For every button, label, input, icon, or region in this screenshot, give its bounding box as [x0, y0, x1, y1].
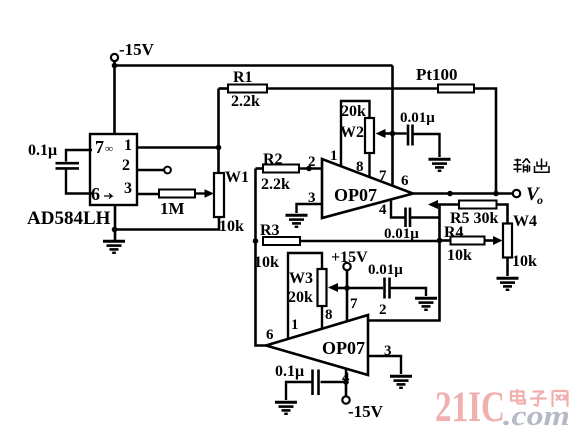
op-amp U2 OP07 top	[308, 148, 413, 218]
svg-text:W4: W4	[513, 213, 537, 230]
svg-text:W1: W1	[225, 169, 249, 186]
svg-text:10k: 10k	[447, 247, 472, 264]
svg-text:0.1μ: 0.1μ	[275, 363, 304, 380]
svg-text:R4: R4	[444, 224, 464, 241]
svg-text:7: 7	[379, 168, 387, 184]
svg-text:2: 2	[379, 302, 387, 318]
node junction R3	[253, 238, 259, 244]
svg-text:-15V: -15V	[119, 40, 155, 59]
svg-text:2: 2	[308, 154, 316, 170]
resistor R1 2.2k	[219, 69, 268, 110]
svg-text:7: 7	[95, 137, 104, 157]
wire -15V rail top	[115, 61, 393, 66]
wire pin4 bottom	[345, 369, 347, 383]
wire -15V rail down to pin7	[391, 66, 394, 186]
label output chinese	[514, 159, 550, 173]
svg-text:W2: W2	[340, 124, 364, 141]
svg-text:10k: 10k	[512, 253, 537, 270]
svg-text:1M: 1M	[160, 199, 185, 218]
wire pin1 to W2 loop	[341, 101, 370, 167]
wire W3 bottom to pin8	[321, 306, 323, 329]
svg-text:8: 8	[356, 159, 364, 175]
IC U1 AD584LH box	[90, 134, 137, 205]
svg-text:R3: R3	[260, 222, 280, 239]
svg-text:6: 6	[401, 173, 409, 189]
node junction pin4	[343, 379, 349, 385]
potentiometer W2 20k	[340, 103, 374, 153]
watermark chinese	[511, 389, 568, 407]
wiper W2 arrow	[376, 129, 393, 138]
ground below AD584	[103, 241, 125, 253]
svg-text:R1: R1	[233, 69, 253, 86]
node junction pin1/R1/W1	[216, 145, 222, 151]
wire opamp2 pin3 to ground	[368, 356, 401, 374]
svg-text:-15V: -15V	[348, 402, 384, 421]
wire -15V to AD584 pin7	[113, 66, 116, 135]
svg-text:10k: 10k	[254, 254, 279, 271]
svg-text:3: 3	[124, 180, 132, 197]
wire pin1 to W3 loop	[288, 253, 322, 339]
wire opamp1 pin3 to ground	[297, 204, 323, 213]
svg-text:20k: 20k	[288, 289, 313, 306]
svg-text:6: 6	[91, 184, 100, 204]
capacitor 0.1u bottom	[275, 363, 346, 400]
svg-text:4: 4	[379, 202, 387, 218]
output terminal Vo	[513, 184, 543, 207]
svg-text:1: 1	[124, 137, 132, 154]
svg-text:0.01μ: 0.01μ	[400, 110, 435, 126]
node junction W3 wiper	[344, 285, 350, 291]
ground at opamp1 pin3	[286, 215, 308, 227]
capacitor 0.01u at pin4	[384, 208, 440, 243]
svg-text:21IC: 21IC	[435, 384, 505, 431]
ground at W4	[497, 278, 519, 290]
resistor Pt100	[416, 65, 474, 93]
power terminal -15V top left	[111, 40, 155, 61]
ground at opamp2 pin3	[390, 376, 412, 388]
svg-text:2.2k: 2.2k	[261, 176, 290, 193]
svg-text:0.1μ: 0.1μ	[28, 142, 57, 159]
ground at 0.1u	[275, 402, 297, 414]
svg-text:0.01μ: 0.01μ	[384, 226, 419, 242]
svg-text:2: 2	[122, 157, 130, 174]
wire output opamp1 to terminal	[413, 192, 513, 195]
svg-text:R2: R2	[263, 151, 283, 168]
node junction W2 wiper	[390, 131, 396, 137]
wire W4 to ground	[506, 258, 509, 277]
svg-text:AD584LH: AD584LH	[27, 208, 111, 229]
wire R1 left vertical to W1	[217, 89, 220, 174]
capacitor 0.01u at W2	[393, 110, 440, 157]
resistor R4 10k	[440, 224, 503, 264]
svg-text:1: 1	[291, 317, 299, 333]
wire AD584 pin1 to R1 node	[137, 146, 219, 149]
node junction output a	[447, 191, 453, 197]
wire R5 node down to opamp2 pin2	[368, 205, 440, 321]
potentiometer W4 10k	[503, 213, 537, 270]
svg-text:OP07: OP07	[322, 338, 365, 358]
svg-text:0.01μ: 0.01μ	[368, 262, 403, 278]
resistor R5 30k with arrow	[428, 200, 508, 227]
wiper W3 arrow	[328, 283, 347, 292]
svg-text:W3: W3	[289, 270, 313, 287]
capacitor 0.01u at W3	[347, 262, 426, 299]
svg-text:8: 8	[325, 307, 333, 323]
svg-text:7: 7	[350, 296, 358, 312]
wire W1 bottom to AD584 ground	[115, 217, 220, 230]
svg-text:Pt100: Pt100	[416, 65, 458, 84]
svg-text:6: 6	[266, 327, 274, 343]
node junction output b	[493, 191, 499, 197]
svg-text:10k: 10k	[219, 218, 244, 235]
svg-text:OP07: OP07	[334, 185, 377, 205]
svg-text:+15V: +15V	[331, 249, 368, 266]
wire pin4 to cap	[391, 200, 405, 218]
power terminal +15V	[331, 249, 368, 270]
capacitor 0.1u at AD584	[28, 142, 92, 194]
potentiometer W3 20k	[288, 269, 327, 306]
wire R1 to Pt100	[267, 87, 438, 90]
resistor R3 10k	[254, 222, 300, 271]
potentiometer W1 10k	[214, 169, 249, 235]
node junction R4	[437, 238, 443, 244]
resistor R2 2.2k	[256, 151, 323, 193]
wire +15V to pin7	[346, 271, 349, 322]
resistor 1M	[137, 189, 214, 218]
wire R2/R3 vertical to opamp2 output	[256, 169, 267, 346]
svg-text:1: 1	[330, 148, 338, 164]
node junction pin2	[306, 166, 312, 172]
wire W2 bottom to pin8	[368, 153, 370, 177]
wire AD584 pin2 open terminal	[137, 167, 171, 174]
node junction -15V	[112, 63, 118, 69]
power terminal -15V bottom	[342, 382, 383, 421]
wire R3 to R4 node	[300, 240, 440, 243]
svg-text:o: o	[537, 193, 543, 207]
op-amp U3 OP07 bottom	[266, 296, 392, 386]
svg-text:∞: ∞	[105, 143, 113, 155]
svg-text:20k: 20k	[341, 103, 366, 120]
wire Pt100 down to output node	[474, 89, 496, 194]
svg-text:2.2k: 2.2k	[231, 93, 260, 110]
wire AD584 ground stem	[114, 205, 117, 240]
ground at 0.01u W2	[429, 159, 451, 171]
ground at 0.01u W3	[415, 298, 437, 310]
node junction ground	[112, 227, 118, 233]
